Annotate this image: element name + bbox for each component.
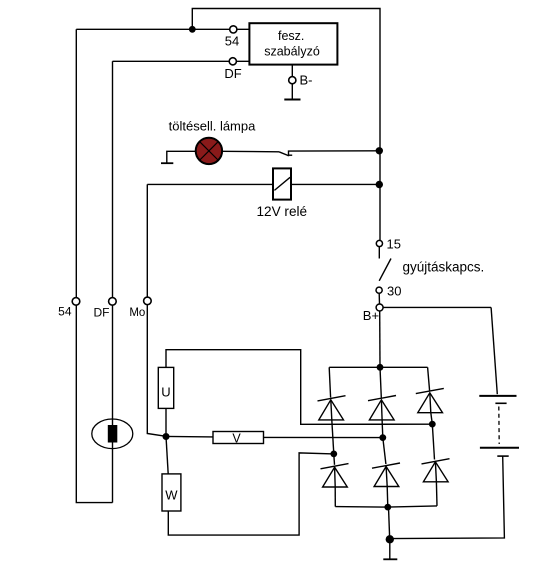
rotor field winding (slip ring) [92,419,133,449]
wire relay row right [291,183,379,185]
battery plate short - [497,455,508,457]
relay contact blade [279,152,288,156]
svg-text:V: V [232,432,241,446]
wire battery drop [491,307,497,394]
diode D5 bottom middle [383,438,386,465]
svg-text:Mo: Mo [129,307,145,319]
node U phase [429,421,436,428]
wire stub under 15 [378,247,380,259]
wire 54 left column [76,29,112,502]
node lamp line at ignition wire [376,147,383,154]
svg-text:szabályzó: szabályzó [264,45,320,59]
svg-text:30: 30 [387,284,401,299]
node V phase [379,434,386,441]
svg-text:U: U [161,385,170,400]
diode D3 top right [428,367,430,391]
node B+ bus [377,364,384,371]
stator winding U [158,367,173,408]
terminal 30 [376,287,382,293]
wire regulator B- lead [291,65,293,77]
wire relay row left [147,183,273,185]
wire Mo column [147,184,166,436]
wire battery negative to B- node [390,457,505,539]
svg-text:54: 54 [225,34,239,49]
wire B+ down to rectifier [379,311,381,367]
terminal 15 [376,240,382,246]
svg-text:15: 15 [387,237,401,252]
wire DF left column through rotor [112,61,114,502]
terminal DF (alternator) [109,298,117,306]
wire 54 row to regulator [76,28,249,30]
diode D4 bottom left [333,454,336,465]
wire star to W winding [166,436,168,474]
ground (regulator B-) [284,99,300,101]
svg-text:B+: B+ [363,308,379,323]
wire bottom bus to B- node [389,507,390,539]
wire rectifier bottom bus [335,506,437,507]
wire B- to ground [291,84,293,99]
wire 30 to B+ [378,294,380,304]
battery plate long + [480,447,519,449]
battery G1 plate long + [479,395,516,397]
battery plate short - [495,402,506,404]
ground (battery minus) [383,558,397,560]
wire rectifier top bus [329,366,427,368]
svg-text:gyújtáskapcs.: gyújtáskapcs. [403,260,485,275]
svg-text:DF: DF [94,306,110,320]
lamp H1 töltésell. lámpa [196,138,222,164]
stator winding V [213,432,264,444]
node junction at 54 line [189,26,196,33]
node W phase [330,451,337,458]
svg-text:DF: DF [224,66,241,81]
wire star to V winding [166,435,213,438]
ground (lamp) [161,162,173,164]
wire DF row to regulator [113,60,250,62]
wire U bottom to star [165,408,167,433]
ignition switch gyújtáskapcs. [379,259,391,281]
diode D6 bottom right [422,459,450,464]
terminal B- [289,77,296,84]
node relay at ignition wire [376,181,383,188]
svg-text:W: W [165,488,178,503]
node star point [163,433,170,440]
battery cell dashes [498,407,500,445]
regulator U1 fesz. szabályzó [249,23,337,64]
svg-text:12V relé: 12V relé [256,204,307,219]
relay K1 12V relé [273,168,291,199]
terminal 54 (alternator) [72,298,80,306]
node B- junction [386,535,394,543]
wire B+ row to battery [383,306,491,308]
stator winding W [162,474,181,511]
wire lamp left to ground [167,151,196,163]
svg-text:fesz.: fesz. [278,29,304,43]
terminal Mo [144,297,152,305]
svg-text:54: 54 [58,305,72,319]
wire lamp right to relay contact [222,150,279,153]
svg-text:B-: B- [300,73,313,88]
wire U phase to rectifier [166,350,432,425]
node B+ [376,304,383,311]
diode D1 top left [329,367,330,397]
wire top bus from node 54 to ignition line [192,9,380,241]
terminal 54 (regulator) [230,26,237,33]
svg-text:töltésell. lámpa: töltésell. lámpa [169,119,256,134]
wire W phase to rectifier [168,453,333,535]
node bottom bus [384,504,391,511]
terminal DF (regulator) [229,58,236,65]
wire B- node to ground [389,539,391,559]
wire V phase to rectifier [264,436,383,438]
diode D2 top middle [380,367,381,397]
